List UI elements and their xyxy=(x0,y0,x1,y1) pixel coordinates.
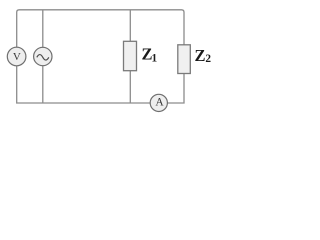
svg-text:Z: Z xyxy=(195,46,206,65)
impedance Z2 box xyxy=(178,45,191,74)
svg-text:A: A xyxy=(155,96,164,108)
svg-text:2: 2 xyxy=(205,53,211,65)
wire: Z1 branch xyxy=(129,10,131,103)
wire: bottom rail right segment xyxy=(167,74,184,104)
svg-text:1: 1 xyxy=(152,53,158,65)
AC source xyxy=(34,47,52,65)
voltmeter V xyxy=(7,47,26,66)
impedance Z1 box xyxy=(124,41,137,70)
wire: outer loop top rail xyxy=(17,10,184,47)
svg-text:V: V xyxy=(13,51,21,63)
ammeter A xyxy=(150,94,167,111)
wire: bottom rail left segment xyxy=(17,66,150,103)
wire: AC source branch xyxy=(42,10,44,103)
